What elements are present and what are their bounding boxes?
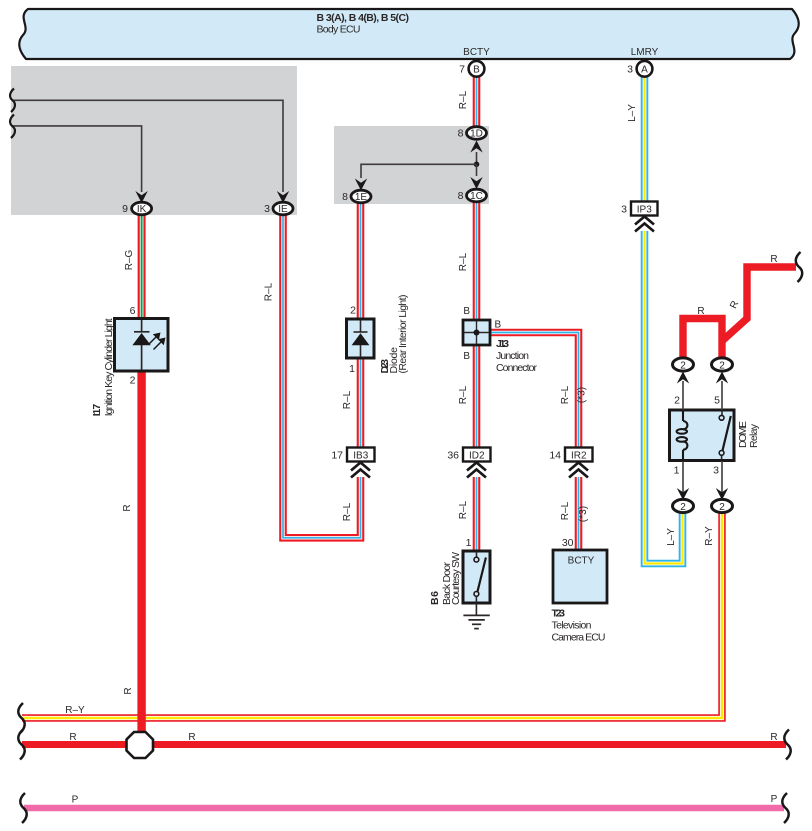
component DOME relay: [670, 410, 735, 461]
svg-text:R–Y: R–Y: [65, 705, 85, 716]
svg-text:7: 7: [459, 64, 465, 76]
svg-text:R–L: R–L: [458, 500, 469, 519]
wire R-G: IK oval to I17 pin 6: [138, 213, 146, 319]
wire R-L: ECU B pin down to 1D: [473, 75, 481, 128]
svg-text:R: R: [188, 732, 195, 743]
LED arrows: [149, 337, 162, 350]
wire R-L: 1C down to J13: [473, 200, 481, 321]
svg-text:2: 2: [674, 395, 680, 407]
thin wire junction to 1E: [361, 164, 477, 178]
svg-text:B 6: B 6: [429, 591, 441, 605]
connector oval IE: [273, 202, 293, 215]
connector circle A on ECU: [637, 61, 653, 77]
arrowhead down into IE: [277, 191, 289, 203]
svg-text:1E: 1E: [355, 192, 368, 203]
thin wire 1D to junction dot: [476, 152, 478, 165]
svg-text:2: 2: [680, 502, 686, 513]
connector oval 1C: [467, 189, 487, 202]
svg-text:Connector: Connector: [496, 362, 538, 374]
relay bottom thin wires: [682, 461, 684, 499]
svg-text:R–G: R–G: [124, 249, 135, 270]
svg-text:Camera ECU: Camera ECU: [552, 632, 606, 644]
svg-text:2: 2: [680, 361, 686, 372]
svg-text:R: R: [69, 732, 76, 743]
ground wire below B6: [475, 603, 477, 615]
ground symbol: [463, 615, 489, 628]
component I17: Ignition Key Cylinder Light: [115, 319, 169, 372]
svg-text:T23: T23: [552, 608, 566, 620]
wire P pink: bottom line: [24, 805, 784, 811]
svg-text:R–L: R–L: [560, 385, 571, 404]
svg-text:Ignition Key Cylinder Light: Ignition Key Cylinder Light: [103, 318, 115, 416]
svg-text:1D: 1D: [470, 129, 483, 140]
svg-text:8: 8: [458, 128, 464, 140]
svg-text:R–L: R–L: [264, 282, 275, 301]
break squiggle left P: [20, 793, 26, 823]
svg-text:R–Y: R–Y: [704, 526, 715, 546]
wire: internal ECU wire to IE (upper): [12, 100, 283, 192]
svg-text:30: 30: [562, 537, 574, 549]
svg-text:IB3: IB3: [353, 451, 368, 462]
wire R-L: J13 down to ID2: [473, 344, 481, 448]
svg-text:3: 3: [713, 465, 719, 477]
connector rect IP3: [631, 202, 658, 216]
svg-text:Television: Television: [552, 620, 592, 632]
svg-text:3: 3: [621, 204, 627, 216]
break squiggle right P: [782, 793, 788, 823]
svg-text:(*3): (*3): [578, 506, 589, 522]
svg-text:2: 2: [719, 361, 725, 372]
chevron below ID2: [467, 463, 486, 478]
wire R-L: 1E oval to D23 pin 2: [357, 202, 365, 320]
shield: Body ECU internal area (left gray box): [11, 66, 297, 215]
svg-text:Courtesy SW: Courtesy SW: [450, 552, 462, 605]
relay coil: [677, 411, 688, 460]
svg-text:1: 1: [466, 537, 472, 549]
svg-text:1C: 1C: [470, 191, 483, 202]
svg-text:8: 8: [342, 191, 348, 203]
svg-text:Junction: Junction: [496, 350, 529, 362]
relay top thin wires: [682, 381, 684, 410]
svg-text:R: R: [770, 732, 777, 743]
break squiggle at left of internal wire 1: [10, 89, 15, 113]
break squiggle top right R: [796, 252, 802, 282]
break squiggle at left of internal wire 2: [10, 115, 15, 139]
break squiggle right R: [784, 730, 790, 760]
arrowhead up into pin2 oval: [677, 372, 689, 384]
break squiggle left R-Y: [18, 703, 24, 733]
wire L-Y: IP3 chevron down, U-turn to dome relay pin 1 oval: [645, 231, 683, 564]
relay bottom oval pin3: [712, 499, 733, 512]
relay top oval pin2: [673, 358, 694, 371]
arrowhead up into 1D: [470, 141, 482, 153]
wire L-Y: ECU A pin down to IP3: [641, 75, 649, 202]
svg-text:L–Y: L–Y: [627, 104, 638, 122]
component J13: Junction Connector: [463, 320, 490, 345]
svg-text:17: 17: [331, 450, 343, 462]
arrowhead down into 1C: [470, 177, 482, 189]
splice octagon on R line: [127, 732, 154, 758]
svg-text:B: B: [495, 320, 502, 331]
wire R thick: branch up right to edge: [722, 267, 796, 341]
wire R-L: IE oval down, right to IB3 chevron bottom: [283, 213, 361, 538]
internal ECU wire to IK (lower): [12, 126, 142, 192]
svg-text:3: 3: [264, 203, 270, 215]
wire R thick: I17 pin 2 down to splice: [137, 356, 145, 748]
svg-text:R–L: R–L: [458, 252, 469, 271]
svg-text:1: 1: [674, 465, 680, 477]
LED symbol inside I17: [134, 320, 150, 370]
svg-text:P: P: [771, 794, 778, 805]
svg-text:2: 2: [350, 305, 356, 317]
chevron below IB3: [351, 463, 370, 478]
wire R-Y: relay pin3 oval down, left along bottom to left edge: [22, 511, 722, 718]
svg-text:IR2: IR2: [571, 451, 587, 462]
svg-text:(*3): (*3): [577, 387, 588, 403]
arrowhead down into 1E: [355, 179, 367, 191]
svg-text:2: 2: [130, 375, 136, 387]
svg-text:LMRY: LMRY: [631, 47, 659, 58]
svg-text:3: 3: [627, 64, 633, 76]
connector oval 1D: [467, 127, 487, 140]
connector oval 1E: [351, 190, 371, 203]
connector rect ID2: [463, 448, 491, 462]
thin wire junction to 1C: [476, 164, 478, 176]
svg-text:BCTY: BCTY: [568, 556, 595, 567]
ECU banner: Body ECU: [19, 9, 798, 59]
relay switch: [721, 411, 723, 415]
arrowhead down into lower left oval: [677, 488, 689, 500]
svg-text:R–L: R–L: [560, 501, 571, 520]
chevron below IR2: [569, 463, 588, 478]
wire R thick: bottom main line: [22, 741, 786, 748]
svg-text:B: B: [473, 65, 480, 76]
wire R-L: IR2 chevron to T23 pin 30: [575, 477, 583, 551]
svg-text:9: 9: [122, 203, 128, 215]
svg-text:1: 1: [349, 363, 355, 375]
svg-text:B 3(A), B 4(B), B 5(C): B 3(A), B 4(B), B 5(C): [317, 12, 410, 24]
arrowhead down into lower right oval: [716, 488, 728, 500]
connector rect IB3: [347, 448, 375, 462]
component B6: Back Door Courtesy SW: [463, 551, 490, 603]
svg-text:8: 8: [458, 190, 464, 202]
wire R-L: D23 pin 1 to IB3 connector: [357, 357, 365, 448]
arrowhead down into IK: [135, 191, 147, 203]
svg-text:R: R: [770, 254, 777, 265]
relay top oval pin5: [712, 358, 733, 371]
junction dot: [474, 162, 480, 168]
svg-text:(Rear Interior Light): (Rear Interior Light): [397, 295, 409, 374]
svg-text:36: 36: [447, 450, 459, 462]
wire R-L: ID2 chevron down to B6 pin 1: [473, 477, 481, 551]
svg-text:B: B: [463, 306, 470, 317]
svg-text:14: 14: [549, 450, 561, 462]
connector circle B on ECU: [469, 61, 485, 77]
svg-text:R–L: R–L: [342, 502, 353, 521]
wire R-L: J13 right branch to IR2: [489, 333, 579, 449]
relay bottom oval pin1: [673, 499, 694, 512]
svg-text:B: B: [463, 351, 470, 362]
svg-text:R–L: R–L: [458, 90, 469, 109]
svg-text:R–L: R–L: [458, 385, 469, 404]
arrowhead up into pin5 oval: [716, 372, 728, 384]
connector rect IR2: [565, 448, 593, 462]
component D23: Diode (Rear Interior Light): [347, 319, 375, 358]
svg-text:R: R: [697, 306, 704, 317]
connector oval IK: [132, 202, 152, 215]
break squiggle left R: [18, 730, 24, 760]
svg-text:I17: I17: [91, 404, 103, 417]
svg-text:P: P: [72, 795, 79, 806]
svg-text:IK: IK: [137, 204, 147, 215]
svg-text:6: 6: [130, 305, 136, 317]
svg-text:R: R: [122, 504, 133, 511]
svg-text:IE: IE: [278, 204, 288, 215]
svg-text:5: 5: [714, 395, 720, 407]
svg-text:J13: J13: [496, 338, 509, 350]
chevron below IP3: [635, 217, 654, 232]
svg-text:L–Y: L–Y: [666, 528, 677, 546]
svg-text:Relay: Relay: [748, 423, 760, 448]
svg-text:ID2: ID2: [469, 451, 485, 462]
svg-text:BCTY: BCTY: [463, 47, 490, 58]
shield: connector area (middle gray box): [334, 126, 489, 204]
svg-text:R–L: R–L: [342, 390, 353, 409]
svg-text:R: R: [123, 687, 134, 694]
wire R thick: dome relay top bridge between pin2 and pin5 ovals: [683, 319, 722, 360]
svg-text:IP3: IP3: [637, 205, 652, 216]
component T23: Television Camera ECU: [553, 550, 607, 603]
svg-text:A: A: [641, 65, 648, 76]
svg-text:Body ECU: Body ECU: [317, 24, 361, 36]
svg-text:2: 2: [719, 502, 725, 513]
